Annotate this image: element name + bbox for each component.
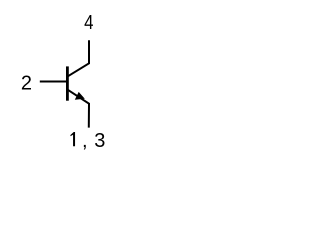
pin number 1 (emitter): [70, 132, 75, 146]
wire collector lead (pin 4): [68, 40, 89, 76]
wire base lead to pin 2: [40, 81, 68, 83]
wire emitter lead (pins 1,3): [68, 90, 89, 128]
svg-text:4: 4: [84, 11, 93, 34]
transistor Q1 base bar: [66, 66, 69, 100]
svg-text:,: ,: [82, 130, 88, 152]
transistor Q1 emitter arrow (NPN): [75, 92, 85, 100]
svg-text:3: 3: [94, 130, 105, 152]
svg-text:2: 2: [21, 73, 32, 95]
